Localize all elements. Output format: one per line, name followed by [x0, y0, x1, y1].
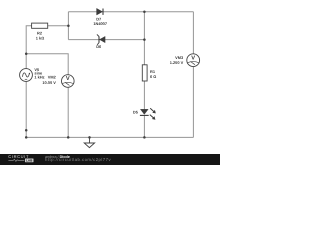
LED D5 [133, 108, 156, 119]
node VM2 / bottom rail junction dot [67, 136, 70, 139]
ground [84, 137, 94, 147]
node A junction dot [67, 24, 70, 27]
node V5 / VM2 link junction dot [25, 52, 28, 55]
diode D7 [93, 8, 107, 26]
node ground / bottom rail junction dot [88, 136, 91, 139]
voltmeter VM3 [170, 54, 200, 67]
footer bar [0, 0, 220, 165]
wire: top rail (D7 row) [68, 11, 193, 13]
wire: D6 row [68, 39, 144, 41]
wire: VM2 bottom to rail [67, 87, 69, 137]
wire: V5 bottom to rail [25, 81, 27, 137]
wire: VM2 top link [26, 54, 68, 75]
node top rail / R1 branch junction dot [143, 11, 146, 14]
node bottom-left corner dot [25, 136, 28, 139]
wire: R1 branch upper [143, 12, 145, 65]
wire: VM3 branch upper [192, 12, 194, 54]
wire: VM3 branch lower [192, 67, 194, 138]
voltage source V5 (sine) [20, 67, 45, 81]
svg-text:http://circuitlab.com/c2pl77v: http://circuitlab.com/c2pl77v [45, 157, 111, 162]
CircuitLab logo LAB box [25, 159, 34, 163]
wire: R2 right to node A [48, 25, 69, 27]
resistor R2 [32, 23, 48, 40]
wire: LED to bottom rail [143, 115, 145, 137]
wire: top-left corner, V5 top to R2 left [26, 26, 31, 69]
wire: node A vertical [67, 12, 69, 40]
voltmeter VM2 [42, 75, 74, 88]
diode D6 (points left, hooked cathode bar) [96, 34, 105, 49]
wire: bottom rail [26, 136, 193, 138]
svg-text:LAB: LAB [26, 159, 33, 163]
resistor R1 [142, 65, 156, 81]
CircuitLab logo waveform [8, 159, 24, 161]
node V5 lower wire joint dot [25, 129, 28, 132]
node D6 row / R1 branch junction dot [143, 38, 146, 41]
node LED / bottom rail junction dot [143, 136, 146, 139]
svg-text:CIRCUIT: CIRCUIT [8, 154, 29, 159]
wire: R1 bottom to LED [143, 81, 145, 110]
